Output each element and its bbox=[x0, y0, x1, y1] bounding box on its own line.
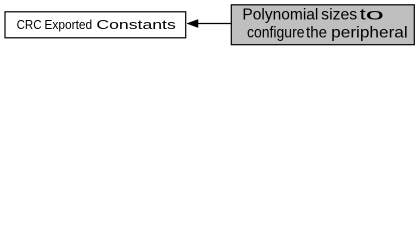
label line 1: Polynomial sizes to bbox=[242, 6, 384, 23]
svg-text:o: o bbox=[366, 6, 385, 23]
svg-text:the: the bbox=[306, 25, 327, 42]
svg-text:sizes: sizes bbox=[321, 6, 357, 23]
svg-text:Polynomial: Polynomial bbox=[242, 6, 318, 23]
svg-text:configure: configure bbox=[247, 25, 305, 42]
svg-text:CRC: CRC bbox=[17, 17, 42, 32]
node box: CRC Exported Constants bbox=[5, 12, 186, 38]
label line 2: configure the peripheral bbox=[247, 25, 408, 42]
background bbox=[0, 0, 420, 51]
svg-text:Exported: Exported bbox=[44, 17, 92, 32]
edge arrowhead bbox=[187, 20, 198, 28]
svg-text:peripheral: peripheral bbox=[331, 25, 408, 42]
node box: Polynomial sizes to configure the peripheral (current node, grey) bbox=[231, 5, 414, 45]
edge tail wire bbox=[198, 23, 231, 25]
svg-text:Constants: Constants bbox=[96, 17, 176, 32]
label: CRC Exported Constants bbox=[17, 17, 177, 32]
